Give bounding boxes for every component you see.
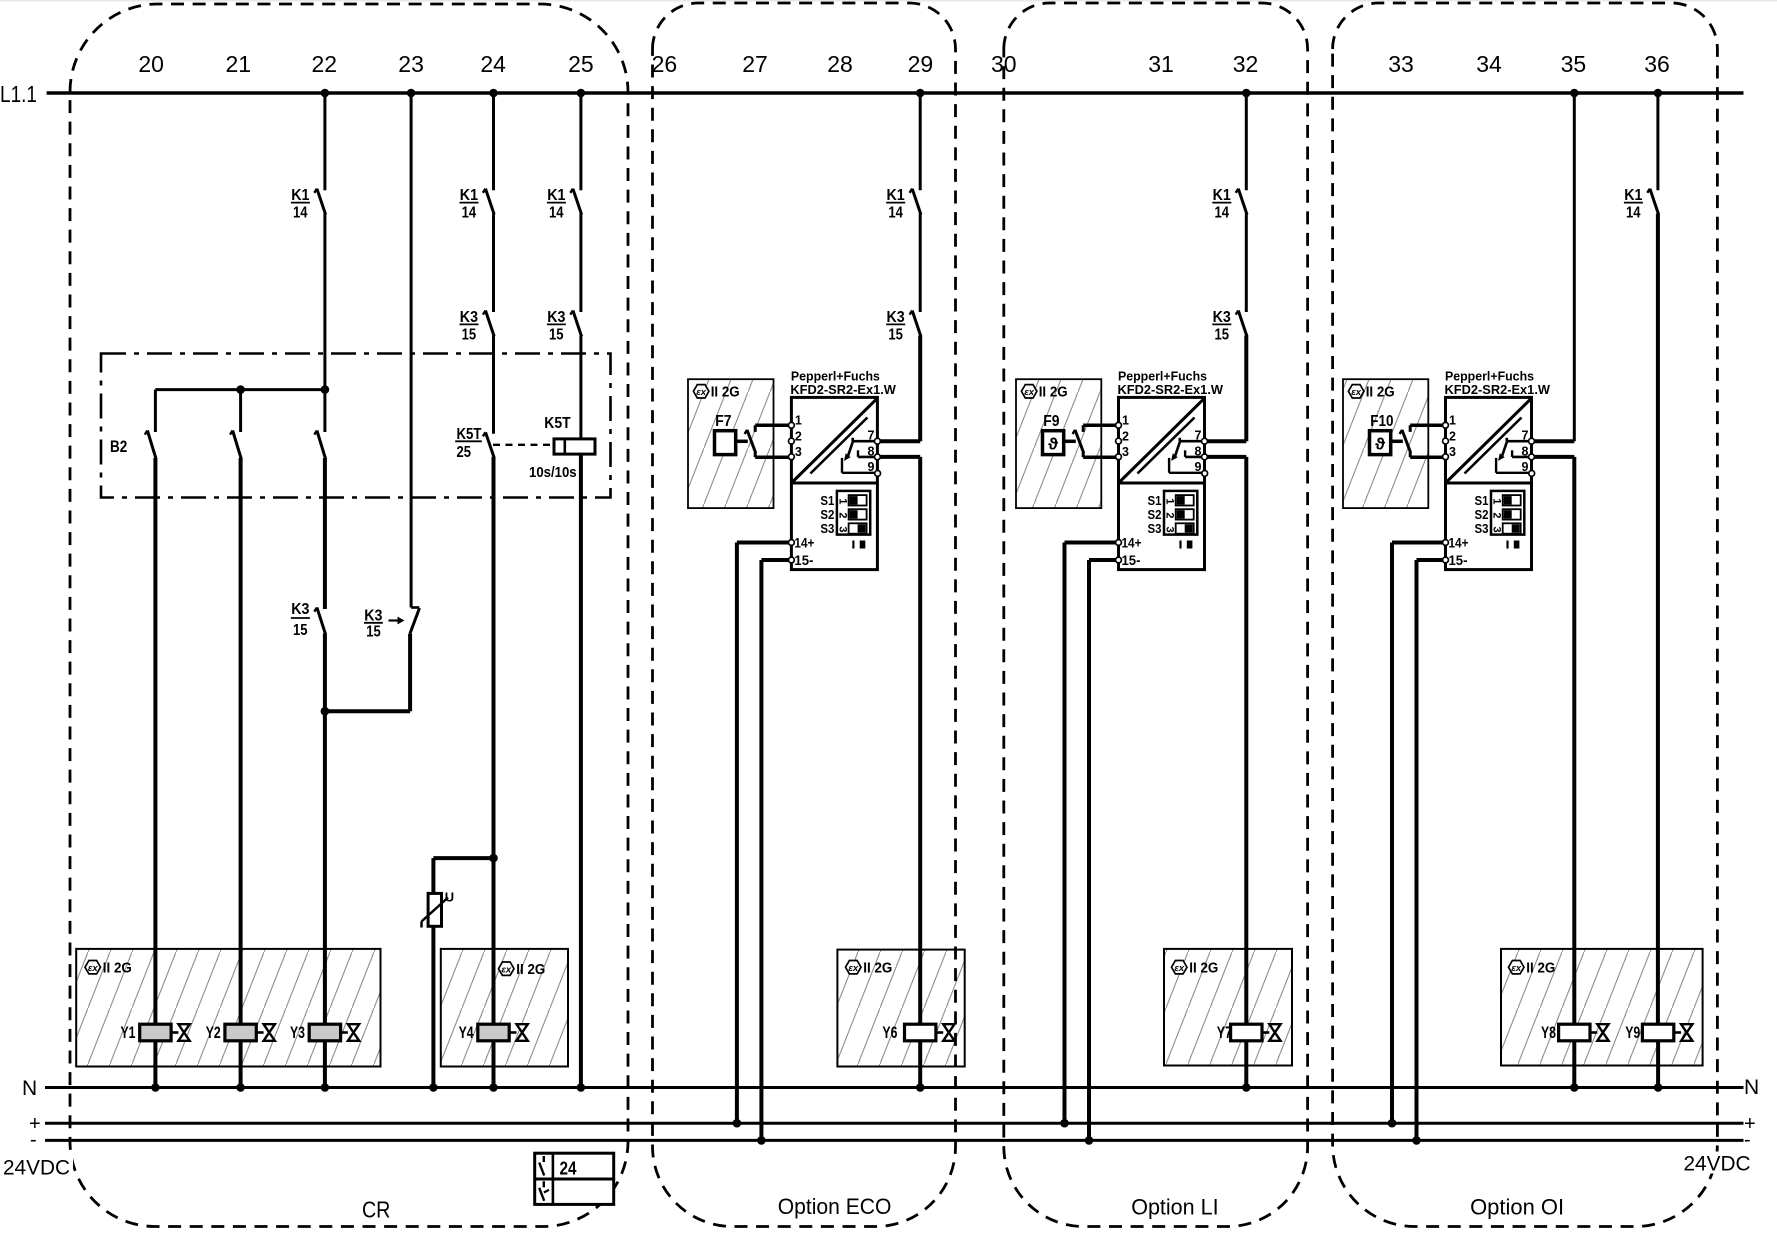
svg-text:1: 1 bbox=[1491, 498, 1503, 504]
svg-text:N: N bbox=[22, 1077, 37, 1100]
wire col25 upper bbox=[579, 93, 582, 190]
svg-text:ϑ: ϑ bbox=[1048, 435, 1058, 454]
wire B2 bus horizontal bbox=[155, 388, 325, 391]
node col20 / N bbox=[151, 1083, 160, 1092]
svg-text:2: 2 bbox=[1491, 512, 1503, 518]
label 24VDC right bbox=[1681, 1152, 1753, 1176]
label K1 14 col22 bbox=[291, 187, 310, 222]
wire col32 to pin7 bbox=[1244, 336, 1248, 442]
node L1.1 / col22 bbox=[321, 89, 330, 98]
Ex zone box Y7 bbox=[1164, 949, 1292, 1066]
varistor U bbox=[422, 893, 449, 927]
svg-text:Option OI: Option OI bbox=[1470, 1195, 1564, 1220]
svg-text:K1: K1 bbox=[291, 187, 309, 204]
node - ECO bbox=[757, 1136, 766, 1145]
wire col24 Y4 to N bbox=[492, 1041, 496, 1088]
svg-text:S1: S1 bbox=[1475, 493, 1489, 508]
node col21 / N bbox=[236, 1083, 245, 1092]
wire col22 B2 stub bbox=[323, 390, 326, 432]
svg-text:14: 14 bbox=[1626, 205, 1641, 222]
wire col22 K3 to junction bbox=[323, 633, 327, 711]
node + LI bbox=[1060, 1119, 1069, 1128]
contact K1/14 col24 bbox=[483, 189, 494, 215]
wire col32 K1-K3 bbox=[1245, 214, 1248, 313]
svg-text:15: 15 bbox=[293, 622, 308, 639]
wire LI pin1 bbox=[1083, 423, 1118, 427]
label K1 14 col32 bbox=[1212, 187, 1231, 222]
node Y9 / N bbox=[1654, 1083, 1663, 1092]
svg-text:21: 21 bbox=[226, 51, 252, 77]
wire 14+ LI bbox=[1065, 543, 1119, 1124]
label I II ECO bbox=[853, 541, 865, 549]
svg-text:36: 36 bbox=[1644, 51, 1670, 77]
svg-text:εx: εx bbox=[1351, 387, 1362, 398]
wire col21 Y2 to N bbox=[239, 1041, 243, 1088]
svg-text:K3: K3 bbox=[460, 309, 478, 326]
solenoid valve Y6 bbox=[905, 1024, 955, 1041]
svg-text:2: 2 bbox=[1449, 429, 1456, 443]
svg-text:S3: S3 bbox=[1148, 521, 1162, 536]
svg-text:-: - bbox=[30, 1129, 37, 1151]
svg-text:15-: 15- bbox=[794, 553, 813, 568]
svg-text:31: 31 bbox=[1148, 51, 1174, 77]
sensor box B2 (dash-dot border) bbox=[101, 354, 611, 498]
DIP switches S1-S3 OI bbox=[1491, 491, 1525, 535]
solenoid valve Y8 bbox=[1559, 1024, 1609, 1041]
svg-text:εx: εx bbox=[88, 963, 99, 974]
wire OI pin1 bbox=[1410, 423, 1445, 427]
Ex logo zone Y8-Y9 bbox=[1509, 961, 1525, 974]
Ex logo zone F10 bbox=[1348, 385, 1364, 398]
solenoid valve Y3 bbox=[309, 1024, 359, 1041]
contact K1/14 col22 bbox=[314, 189, 325, 215]
label I II LI bbox=[1181, 541, 1193, 549]
label K3 15 col29 bbox=[886, 309, 905, 344]
Ex logo zone Y7 bbox=[1172, 961, 1188, 974]
wire col25 K1-K3 bbox=[579, 214, 582, 313]
svg-text:1: 1 bbox=[836, 498, 848, 504]
wire col29 upper bbox=[919, 93, 922, 190]
svg-text:ϑ: ϑ bbox=[1375, 435, 1385, 454]
wire col22 upper bbox=[323, 93, 326, 190]
svg-text:KFD2-SR2-Ex1.W: KFD2-SR2-Ex1.W bbox=[790, 382, 896, 397]
svg-text:II 2G: II 2G bbox=[103, 961, 132, 977]
node B2 bus / col22 bbox=[321, 385, 330, 394]
section border Option LI (dashed) bbox=[1004, 3, 1308, 1227]
solenoid valve Y1 bbox=[140, 1024, 190, 1041]
svg-text:1: 1 bbox=[1164, 498, 1176, 504]
label K1 14 col25 bbox=[547, 187, 566, 222]
contact K3/15 col25 bbox=[570, 311, 581, 337]
svg-text:K1: K1 bbox=[547, 187, 565, 204]
node col22 junction bbox=[321, 707, 330, 716]
isolator body ECO bbox=[791, 397, 877, 569]
svg-text:εx: εx bbox=[1174, 963, 1185, 974]
svg-text:14+: 14+ bbox=[1122, 536, 1142, 551]
wire pin7 LI bbox=[1205, 439, 1247, 443]
svg-text:3: 3 bbox=[1122, 445, 1129, 459]
svg-text:15: 15 bbox=[549, 327, 564, 344]
svg-text:KFD2-SR2-Ex1.W: KFD2-SR2-Ex1.W bbox=[1445, 382, 1551, 397]
node N ECO bbox=[916, 1083, 925, 1092]
wire - rail bbox=[45, 1139, 1744, 1142]
terminal box 24 bbox=[535, 1153, 614, 1204]
wire pin8 ECO bbox=[877, 457, 920, 1024]
svg-text:3: 3 bbox=[1164, 526, 1176, 532]
Ex zone box Y8-Y9 bbox=[1501, 949, 1703, 1066]
DIP switches S1-S3 LI bbox=[1164, 491, 1198, 535]
contact B2-1 bbox=[145, 431, 156, 460]
wire L1.1 rail bbox=[47, 91, 1744, 95]
Ex zone box Y6 bbox=[837, 950, 964, 1067]
section border Option ECO (dashed) bbox=[653, 3, 956, 1227]
Ex zone box F10 bbox=[1343, 379, 1428, 508]
svg-text:2: 2 bbox=[795, 429, 802, 443]
svg-text:Y3: Y3 bbox=[290, 1023, 305, 1042]
label I II OI bbox=[1508, 541, 1520, 549]
svg-text:14: 14 bbox=[888, 205, 903, 222]
contact B2-3 bbox=[314, 431, 325, 460]
DIP switches S1-S3 ECO bbox=[836, 491, 870, 535]
label Pepperl+Fuchs OI bbox=[1445, 369, 1551, 397]
wire col23 lower bbox=[408, 634, 412, 711]
mechanical link K5T (dashed) bbox=[493, 444, 554, 446]
Ex logo zone Y4 bbox=[499, 962, 515, 975]
contact K3/15 col23 (jog) bbox=[410, 608, 420, 634]
Ex zone box Y4 bbox=[441, 949, 568, 1067]
svg-text:23: 23 bbox=[398, 51, 424, 77]
wire col20 Y1 to N bbox=[153, 1041, 157, 1088]
wire pin7 OI bbox=[1532, 439, 1575, 443]
svg-text:10s/10s: 10s/10s bbox=[529, 464, 577, 481]
wire 14+ ECO bbox=[737, 543, 792, 1124]
svg-text:K3: K3 bbox=[547, 309, 565, 326]
node varistor / N bbox=[429, 1083, 438, 1092]
svg-text:K1: K1 bbox=[460, 187, 478, 204]
svg-text:26: 26 bbox=[652, 51, 678, 77]
node + OI bbox=[1388, 1119, 1397, 1128]
wire col25 coil to N bbox=[579, 454, 583, 1087]
svg-text:S2: S2 bbox=[820, 507, 834, 522]
relay contact ECO bbox=[842, 438, 878, 473]
label K5T 25 col24 bbox=[455, 426, 482, 461]
svg-text:-: - bbox=[1744, 1129, 1751, 1151]
terminal contact bottom glyph bbox=[539, 1181, 549, 1201]
svg-text:K3: K3 bbox=[364, 607, 382, 624]
node L1.1 / col ECO bbox=[916, 89, 925, 98]
wire col32 upper bbox=[1245, 93, 1248, 190]
Ex logo zone Y1-Y3 bbox=[85, 961, 101, 974]
wire valve to N LI bbox=[1244, 1041, 1248, 1088]
wire col35 from L1.1 bbox=[1573, 93, 1576, 441]
svg-text:15: 15 bbox=[366, 624, 381, 641]
Ex logo zone F7 bbox=[693, 385, 709, 398]
svg-text:K1: K1 bbox=[1624, 187, 1642, 204]
svg-text:14: 14 bbox=[1214, 205, 1229, 222]
svg-text:Y6: Y6 bbox=[882, 1023, 897, 1042]
svg-text:14: 14 bbox=[549, 205, 564, 222]
terminal contact top glyph bbox=[539, 1156, 544, 1176]
isolator body OI bbox=[1446, 397, 1532, 569]
svg-text:3: 3 bbox=[795, 445, 802, 459]
label K3 15 col23 bbox=[364, 607, 383, 640]
svg-text:II 2G: II 2G bbox=[1526, 961, 1555, 977]
svg-text:29: 29 bbox=[908, 51, 934, 77]
svg-text:K1: K1 bbox=[887, 187, 905, 204]
svg-text:25: 25 bbox=[568, 51, 594, 77]
svg-text:28: 28 bbox=[827, 51, 853, 77]
wire 15- ECO bbox=[761, 560, 791, 1140]
svg-text:24VDC: 24VDC bbox=[3, 1156, 70, 1180]
sensor element F10 bbox=[1370, 431, 1391, 455]
svg-text:F7: F7 bbox=[715, 413, 731, 430]
wire col29 to pin7 bbox=[918, 336, 922, 442]
solenoid valve Y7 bbox=[1231, 1024, 1281, 1041]
wire valve to N ECO bbox=[918, 1041, 922, 1088]
wire col36 upper bbox=[1656, 93, 1659, 190]
contact F10 bbox=[1400, 425, 1411, 457]
svg-text:1: 1 bbox=[1449, 414, 1456, 428]
contact F9 bbox=[1073, 425, 1084, 457]
wire pin7 ECO bbox=[877, 439, 920, 443]
wire col20 down to Y1 bbox=[153, 458, 157, 1024]
svg-text:S2: S2 bbox=[1148, 507, 1162, 522]
node col24 / N bbox=[489, 1083, 498, 1092]
svg-text:20: 20 bbox=[138, 51, 164, 77]
svg-text:Option ECO: Option ECO bbox=[778, 1194, 892, 1219]
contact K5T/25 col24 bbox=[483, 432, 494, 458]
svg-text:35: 35 bbox=[1561, 51, 1587, 77]
wire ECO pin1 bbox=[755, 423, 791, 427]
section border CR (dashed) bbox=[70, 4, 628, 1227]
Ex logo zone F9 bbox=[1021, 385, 1037, 398]
svg-text:S1: S1 bbox=[1148, 493, 1162, 508]
wire LI pin3 bbox=[1083, 455, 1118, 459]
svg-text:εx: εx bbox=[1024, 387, 1035, 398]
label K3 15 col32 bbox=[1212, 309, 1231, 344]
node col22 / N bbox=[321, 1083, 330, 1092]
svg-text:3: 3 bbox=[1491, 526, 1503, 532]
contact K1/14 col29 bbox=[910, 189, 921, 215]
node N OI bbox=[1570, 1083, 1579, 1092]
svg-text:CR: CR bbox=[362, 1197, 391, 1223]
svg-text:1: 1 bbox=[795, 414, 802, 428]
wire col25 K3 to coil bbox=[579, 336, 582, 439]
wire pin8 LI bbox=[1205, 457, 1247, 1024]
svg-text:24: 24 bbox=[480, 51, 506, 77]
svg-text:Y1: Y1 bbox=[121, 1023, 136, 1042]
label K1 14 col36 bbox=[1624, 187, 1643, 222]
Ex logo zone Y6 bbox=[846, 961, 862, 974]
svg-text:22: 22 bbox=[312, 51, 338, 77]
svg-text:25: 25 bbox=[457, 444, 472, 461]
wire col36 down to Y9 bbox=[1656, 214, 1660, 1025]
svg-text:II 2G: II 2G bbox=[1039, 384, 1068, 400]
label K1 14 col24 bbox=[460, 187, 479, 222]
svg-text:2: 2 bbox=[836, 512, 848, 518]
node col24 varistor tap bbox=[489, 854, 498, 863]
svg-text:14+: 14+ bbox=[794, 536, 814, 551]
wire 14+ OI bbox=[1392, 543, 1446, 1124]
node L1.1 / col23 bbox=[407, 89, 416, 98]
svg-text:15: 15 bbox=[462, 327, 477, 344]
svg-text:24: 24 bbox=[560, 1159, 577, 1179]
svg-text:εx: εx bbox=[848, 963, 859, 974]
wire pin8 OI bbox=[1532, 457, 1575, 1024]
wire 15- LI bbox=[1089, 560, 1119, 1140]
svg-text:Y8: Y8 bbox=[1541, 1023, 1556, 1042]
svg-text:1: 1 bbox=[1122, 414, 1129, 428]
Ex zone box Y1-Y3 bbox=[76, 949, 380, 1067]
svg-text:3: 3 bbox=[1449, 445, 1456, 459]
wire col22 K1 to B2 bbox=[323, 214, 326, 390]
wire ECO pin3 bbox=[755, 455, 791, 459]
column reference numbers 20-36 bbox=[138, 51, 1669, 77]
svg-text:14: 14 bbox=[462, 205, 477, 222]
contact K1/14 col32 bbox=[1236, 189, 1247, 215]
svg-text:33: 33 bbox=[1388, 51, 1414, 77]
contact K3/15 col29 bbox=[910, 311, 921, 337]
wire varistor to N bbox=[431, 926, 435, 1087]
node + ECO bbox=[733, 1119, 742, 1128]
svg-text:Y4: Y4 bbox=[459, 1023, 474, 1042]
wire 15- OI bbox=[1417, 560, 1446, 1140]
wire + rail bbox=[45, 1122, 1744, 1125]
svg-text:K3: K3 bbox=[1213, 309, 1231, 326]
svg-text:15-: 15- bbox=[1449, 553, 1468, 568]
wire OI pin3 bbox=[1410, 455, 1445, 459]
node col25 / N bbox=[577, 1083, 586, 1092]
node B2 bus / col21 bbox=[236, 385, 245, 394]
svg-text:II 2G: II 2G bbox=[863, 961, 892, 977]
Ex zone box F9 bbox=[1016, 379, 1101, 508]
svg-text:K5T: K5T bbox=[544, 415, 571, 432]
svg-text:27: 27 bbox=[742, 51, 768, 77]
svg-text:K3: K3 bbox=[291, 601, 309, 618]
svg-text:3: 3 bbox=[836, 526, 848, 532]
isolator body LI bbox=[1119, 397, 1205, 569]
node - LI bbox=[1085, 1136, 1094, 1145]
sensor link F9 bbox=[1064, 440, 1076, 444]
wire col22 Y3 to N bbox=[323, 1041, 327, 1088]
Ex zone box F7 bbox=[688, 379, 774, 508]
svg-text:KFD2-SR2-Ex1.W: KFD2-SR2-Ex1.W bbox=[1118, 382, 1224, 397]
wire Y9 to N bbox=[1656, 1041, 1660, 1088]
wire col23 upper bbox=[410, 93, 413, 608]
svg-text:εx: εx bbox=[696, 387, 707, 398]
solenoid valve Y4 bbox=[478, 1024, 528, 1041]
svg-text:S2: S2 bbox=[1475, 507, 1489, 522]
wire col22 to K3 bbox=[323, 458, 327, 609]
svg-text:S1: S1 bbox=[820, 493, 834, 508]
wire col21 stub bbox=[239, 390, 242, 432]
section border Option OI (dashed) bbox=[1333, 3, 1718, 1227]
svg-text:II 2G: II 2G bbox=[1189, 961, 1218, 977]
contact K3/15 col32 bbox=[1236, 311, 1247, 337]
contact K1/14 col36 bbox=[1647, 189, 1658, 215]
wire col24 K1-K3 bbox=[492, 214, 495, 313]
svg-text:F9: F9 bbox=[1043, 413, 1059, 430]
relay contact LI bbox=[1169, 438, 1205, 473]
pin circles ECO bbox=[789, 422, 881, 562]
sensor link F10 bbox=[1391, 440, 1403, 444]
wire col24 to varistor node bbox=[492, 457, 496, 858]
contact K3/15 col24 bbox=[483, 311, 494, 337]
wire col22 down to Y3 bbox=[323, 711, 327, 1024]
svg-text:II 2G: II 2G bbox=[711, 384, 740, 400]
label K3 15 col25 bbox=[547, 309, 566, 344]
contact F7 bbox=[745, 425, 756, 457]
label Pepperl+Fuchs LI bbox=[1118, 369, 1224, 397]
svg-text:Option LI: Option LI bbox=[1131, 1195, 1218, 1220]
svg-text:II 2G: II 2G bbox=[516, 962, 545, 978]
svg-text:14: 14 bbox=[293, 205, 308, 222]
solenoid valve Y2 bbox=[225, 1024, 275, 1041]
svg-text:32: 32 bbox=[1233, 51, 1259, 77]
svg-text:2: 2 bbox=[1164, 512, 1176, 518]
node L1.1 / col36 bbox=[1654, 89, 1663, 98]
timer coil K5T bbox=[554, 439, 595, 454]
node L1.1 / col OI bbox=[1570, 89, 1579, 98]
svg-text:S3: S3 bbox=[1475, 521, 1489, 536]
svg-text:L1.1: L1.1 bbox=[0, 81, 37, 107]
wire varistor branch bbox=[433, 858, 493, 893]
svg-text:F10: F10 bbox=[1370, 413, 1393, 430]
wire col24 K3-K5T bbox=[492, 336, 495, 434]
label K3 15 col24 bbox=[460, 309, 479, 344]
contact B2-2 bbox=[230, 431, 241, 460]
node L1.1 / col25 bbox=[577, 89, 586, 98]
relay contact OI bbox=[1496, 438, 1532, 473]
wire col21 down to Y2 bbox=[239, 458, 243, 1024]
solenoid valve Y9 bbox=[1642, 1024, 1692, 1041]
wire col24 upper bbox=[492, 93, 495, 190]
svg-text:N: N bbox=[1744, 1076, 1759, 1099]
sensor element F9 bbox=[1043, 431, 1064, 455]
svg-text:K3: K3 bbox=[887, 309, 905, 326]
node - OI bbox=[1412, 1136, 1421, 1145]
label K1 14 col29 bbox=[886, 187, 905, 222]
sensor element F7 bbox=[715, 431, 736, 455]
label Pepperl+Fuchs ECO bbox=[790, 369, 896, 397]
svg-text:U: U bbox=[445, 890, 454, 905]
wire col23-col22 link bbox=[325, 709, 410, 713]
svg-text:14+: 14+ bbox=[1449, 536, 1469, 551]
svg-text:II 2G: II 2G bbox=[1366, 384, 1395, 400]
svg-text:15: 15 bbox=[888, 327, 903, 344]
node N LI bbox=[1242, 1083, 1251, 1092]
sensor link F7 bbox=[736, 440, 748, 444]
svg-text:15: 15 bbox=[1214, 327, 1229, 344]
wire valve to N OI bbox=[1572, 1041, 1576, 1088]
contact K3/15 col22 bbox=[314, 608, 325, 635]
node L1.1 / col LI bbox=[1242, 89, 1251, 98]
wire col24 down to Y4 bbox=[492, 858, 496, 1024]
actuation arrow col23 bbox=[389, 617, 405, 625]
wire col29 K1-K3 bbox=[919, 214, 922, 313]
svg-text:K1: K1 bbox=[1213, 187, 1231, 204]
pin circles LI bbox=[1116, 422, 1208, 562]
contact K1/14 col25 bbox=[570, 189, 581, 215]
svg-text:2: 2 bbox=[1122, 429, 1129, 443]
svg-text:Y9: Y9 bbox=[1625, 1023, 1640, 1042]
label 24VDC left bbox=[1, 1155, 73, 1180]
svg-text:Y2: Y2 bbox=[206, 1023, 221, 1042]
svg-text:S3: S3 bbox=[820, 521, 834, 536]
pin circles OI bbox=[1443, 422, 1535, 562]
svg-text:εx: εx bbox=[1511, 963, 1522, 974]
wire col20 stub bbox=[154, 390, 157, 432]
